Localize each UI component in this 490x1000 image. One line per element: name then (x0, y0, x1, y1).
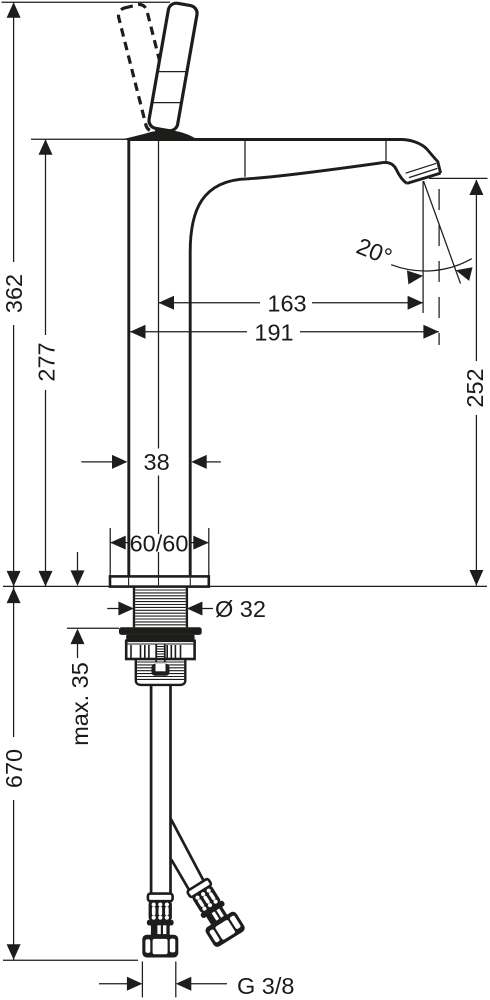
arrow 277 bottom (39, 571, 53, 587)
dimension 277 line (45, 139, 47, 335)
arrow 60/60 left (110, 536, 126, 550)
plate inner lines (129, 578, 191, 586)
angled hose tube (171, 819, 204, 890)
threaded shank upper (134, 588, 187, 628)
dimension 163 line (159, 302, 261, 304)
arrow 252 top (469, 180, 483, 196)
counter line left (3, 585, 110, 587)
arrow 362 bottom (7, 571, 21, 587)
dimension max35 line bottom tail (77, 642, 79, 658)
extension lines G3/8 (141, 962, 143, 998)
spout underside and right column edge (190, 162, 407, 576)
neck (151, 925, 170, 936)
arrow 362 top (7, 2, 21, 18)
dimension G3/8 tails (99, 983, 127, 985)
spout division line 2 (385, 141, 387, 162)
dimension 60/60 stubs (110, 542, 128, 544)
body top edge and spout tip outer (127, 140, 440, 174)
svg-text:362: 362 (1, 274, 27, 313)
ferrule (148, 894, 173, 902)
svg-text:60/60: 60/60 (130, 530, 189, 556)
arrow max35 down (71, 570, 85, 586)
spout division line 1 (244, 141, 246, 177)
dimension O32 tails (107, 608, 119, 610)
angle arc 20deg (391, 259, 472, 271)
handle segment lines (158, 71, 187, 73)
svg-text:Ø 32: Ø 32 (215, 596, 266, 622)
flange lower band (126, 635, 194, 641)
threaded shank lower (136, 659, 186, 685)
dimension 670 line (13, 587, 15, 737)
svg-text:G 3/8: G 3/8 (237, 973, 294, 999)
arrow 277 top (39, 139, 53, 155)
arrow 38 right (191, 455, 207, 469)
extension line outlet vertical (422, 181, 424, 313)
arrow G3/8 right (176, 977, 192, 991)
escutcheon base plate (110, 576, 209, 586)
svg-text:191: 191 (254, 319, 293, 345)
threaded rod through nut (156, 644, 165, 662)
dimension max35 line top tail (77, 552, 79, 572)
arrow O32 right (187, 602, 203, 616)
aerator (406, 163, 441, 183)
extension lines 60/60 (109, 528, 111, 576)
dimension 362 line (13, 2, 15, 262)
arrow 670 bottom (7, 944, 21, 960)
extension line flange top (max35) (67, 627, 119, 629)
hose end reference line (3, 959, 138, 961)
dimension 191 line (130, 331, 247, 333)
arrow 163 left (159, 296, 175, 310)
arrow 38 left (112, 455, 128, 469)
spray direction line 20deg (424, 181, 461, 284)
handle base skirt (121, 131, 199, 140)
svg-text:163: 163 (267, 290, 306, 316)
straight hose tube (151, 686, 170, 895)
arrow 163 right (408, 296, 424, 310)
arrow max35 up (71, 629, 85, 645)
faucet body left edge (127, 140, 130, 577)
hose clamp U piece (152, 664, 170, 676)
extension line body top level (31, 138, 127, 140)
arrow arc right (454, 264, 472, 281)
braid cage (149, 900, 172, 921)
arrow O32 left (118, 602, 133, 616)
arrow 60/60 right (193, 536, 209, 550)
handle lever closed (solid) (148, 2, 199, 132)
handle lever open (dashed) (117, 3, 176, 133)
seal flange (119, 627, 202, 635)
nut (142, 935, 178, 958)
arrow 191 right (423, 325, 439, 339)
dashed extension line aerator tip (438, 189, 440, 345)
arrow G3/8 left (127, 977, 142, 991)
body center line (158, 140, 160, 449)
svg-text:277: 277 (33, 342, 59, 381)
angled hose end assembly (182, 875, 246, 948)
arrow arc left (407, 269, 424, 285)
extension line top (handle top level) (2, 1, 171, 3)
dimension 252 line (475, 180, 477, 361)
straight hose end assembly (142, 894, 178, 958)
lower ferrule (147, 920, 174, 926)
svg-text:38: 38 (144, 449, 170, 475)
dimension 38 tails (81, 461, 113, 463)
svg-text:max. 35: max. 35 (67, 662, 93, 746)
counter line right (209, 585, 487, 587)
arrow 191 left (130, 325, 146, 339)
extension line outlet level (429, 177, 488, 179)
mounting nut (126, 641, 194, 659)
arrow 670 top (7, 588, 21, 604)
svg-text:670: 670 (1, 749, 27, 788)
svg-text:252: 252 (462, 368, 488, 407)
arrow 252 bottom (469, 570, 483, 586)
